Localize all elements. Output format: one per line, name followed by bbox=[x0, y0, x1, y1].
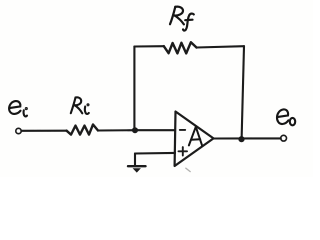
op-amp gain label A bbox=[189, 127, 202, 146]
wire junction to op-amp minus input bbox=[135, 129, 175, 131]
wire op-amp plus input to ground bbox=[135, 152, 175, 155]
faint pencil smudge below op-amp bbox=[186, 168, 190, 171]
wire ground vertical bbox=[134, 154, 136, 166]
wire feedback top left bbox=[134, 45, 163, 47]
label R_i bbox=[71, 97, 89, 114]
wire feedback top right bbox=[197, 46, 245, 47]
wire R_i to junction bbox=[98, 129, 135, 131]
node junction at output bbox=[238, 136, 244, 142]
node e_o output terminal bbox=[281, 135, 287, 141]
wire feedback right vertical bbox=[242, 46, 244, 139]
op-amp minus sign bbox=[180, 129, 185, 131]
node junction at inverting input bbox=[132, 127, 138, 133]
ground bbox=[128, 166, 146, 172]
wire feedback left vertical bbox=[133, 47, 135, 131]
op-amp plus sign bbox=[179, 147, 188, 155]
op-amp U1 triangle bbox=[175, 112, 214, 167]
wire op-amp output bbox=[214, 137, 281, 139]
label e_o bbox=[277, 109, 295, 125]
wire input terminal to R_i bbox=[21, 130, 66, 132]
node e_i input terminal bbox=[16, 128, 21, 133]
label R_f bbox=[170, 7, 194, 31]
label e_i bbox=[9, 101, 27, 116]
resistor R_f bbox=[164, 42, 197, 53]
resistor R_i bbox=[67, 125, 98, 135]
